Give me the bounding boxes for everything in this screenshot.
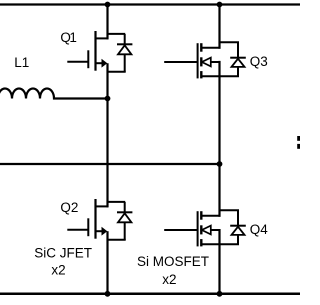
- svg-text:Q3: Q3: [250, 54, 268, 69]
- svg-text:Si MOSFET: Si MOSFET: [137, 254, 209, 269]
- svg-text:SiC JFET: SiC JFET: [34, 246, 92, 261]
- svg-text:x2: x2: [162, 272, 176, 287]
- svg-text:Q1: Q1: [60, 30, 76, 45]
- svg-text:Q2: Q2: [60, 200, 78, 215]
- svg-text:x2: x2: [51, 263, 65, 278]
- svg-text:L1: L1: [14, 55, 29, 70]
- svg-text:Q4: Q4: [250, 222, 269, 237]
